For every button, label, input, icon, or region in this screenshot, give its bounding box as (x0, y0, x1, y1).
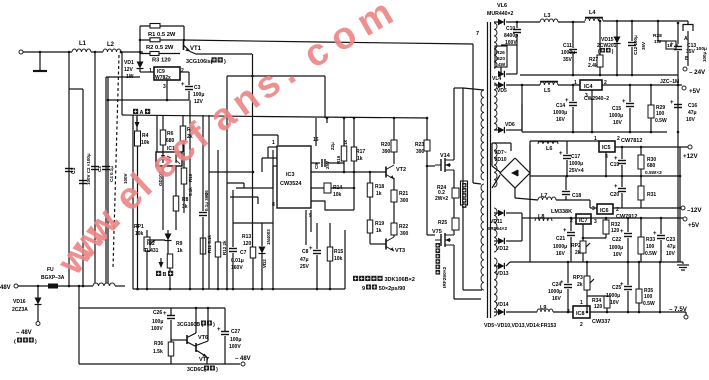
svg-text:R31: R31 (647, 192, 656, 198)
svg-text:2: 2 (617, 136, 620, 142)
svg-text:R18: R18 (375, 184, 384, 190)
svg-text:1: 1 (580, 300, 583, 306)
svg-text:): ) (35, 339, 37, 345)
svg-text:VT2: VT2 (396, 167, 406, 173)
svg-text:R19: R19 (375, 221, 384, 227)
svg-text:3k: 3k (182, 204, 188, 210)
svg-text:R15: R15 (334, 249, 343, 255)
svg-text:1: 1 (149, 68, 152, 74)
svg-text:VD5~VD10,VD13,VD14:FR153: VD5~VD10,VD13,VD14:FR153 (484, 323, 556, 329)
svg-text:1000μ: 1000μ (561, 50, 575, 56)
svg-text:TL431: TL431 (144, 248, 159, 254)
svg-text:): ) (216, 367, 218, 373)
svg-text:VT6: VT6 (198, 335, 208, 341)
svg-text:C25: C25 (612, 285, 621, 291)
svg-text:2k: 2k (577, 282, 583, 288)
svg-text:2CZ3A: 2CZ3A (12, 307, 28, 313)
svg-text:16V: 16V (556, 251, 566, 257)
svg-text:+: + (181, 82, 185, 88)
svg-text:C14: C14 (556, 103, 565, 109)
svg-text:VD13: VD13 (496, 271, 509, 277)
svg-text:VT7: VT7 (199, 357, 209, 363)
svg-text:+5V: +5V (689, 88, 701, 95)
svg-text:48V: 48V (0, 285, 11, 291)
svg-text:0.5W: 0.5W (643, 301, 655, 307)
svg-text:C20: C20 (610, 192, 619, 198)
svg-text:RP2: RP2 (571, 243, 581, 249)
svg-text:+: + (622, 99, 626, 105)
svg-text:R4: R4 (142, 133, 149, 139)
svg-text:8: 8 (272, 202, 275, 208)
svg-text:100μ: 100μ (152, 319, 163, 325)
svg-text:L6: L6 (546, 146, 552, 152)
svg-text:IC7: IC7 (579, 218, 588, 224)
svg-text:100μ: 100μ (696, 46, 707, 52)
svg-text:VD16: VD16 (13, 299, 26, 305)
svg-text:1k: 1k (357, 156, 363, 162)
svg-text:10V: 10V (613, 120, 623, 126)
svg-text:R14: R14 (333, 185, 342, 191)
svg-text:V75: V75 (432, 229, 442, 235)
svg-text:+: + (653, 231, 657, 237)
svg-text:FU: FU (47, 267, 54, 273)
svg-text:10k: 10k (141, 140, 150, 146)
svg-text:0.5W×3: 0.5W×3 (645, 170, 662, 176)
svg-text:120: 120 (243, 241, 252, 247)
svg-text:300: 300 (400, 198, 409, 204)
svg-text:3: 3 (163, 84, 166, 90)
svg-text:12V: 12V (124, 67, 134, 73)
svg-text:C24: C24 (552, 282, 561, 288)
svg-text:1000μ: 1000μ (553, 110, 567, 116)
svg-text:R25: R25 (438, 220, 447, 226)
svg-text:VD6: VD6 (505, 122, 515, 128)
svg-text:IC4: IC4 (584, 84, 594, 90)
svg-text:C23: C23 (666, 237, 675, 243)
svg-text:L1: L1 (79, 41, 87, 47)
svg-text:300: 300 (400, 231, 409, 237)
svg-text:VL6: VL6 (497, 3, 507, 9)
svg-text:10V: 10V (613, 252, 623, 258)
svg-text:): ) (224, 59, 226, 65)
svg-text:+: + (670, 42, 674, 48)
svg-text:SR064×2: SR064×2 (487, 226, 507, 232)
svg-text:IC8: IC8 (576, 311, 585, 317)
svg-text:25V×4: 25V×4 (569, 168, 584, 174)
svg-text:100: 100 (656, 111, 665, 117)
svg-text:R12 2k: R12 2k (222, 240, 227, 255)
svg-text:C16: C16 (688, 103, 697, 109)
svg-text:R8: R8 (182, 197, 189, 203)
svg-text:C27: C27 (231, 329, 240, 335)
svg-text:100: 100 (644, 294, 653, 300)
svg-text:R33: R33 (646, 237, 655, 243)
svg-text:R17: R17 (356, 149, 365, 155)
svg-text:VD7~: VD7~ (494, 150, 507, 156)
svg-text:VD12: VD12 (496, 246, 509, 252)
svg-text:VD1: VD1 (124, 60, 134, 66)
svg-text:IC2: IC2 (147, 241, 155, 247)
svg-text:W782x: W782x (155, 75, 171, 81)
svg-text:+: + (565, 98, 569, 104)
svg-text:0.5W: 0.5W (645, 251, 657, 257)
svg-text:L5: L5 (544, 88, 550, 94)
svg-text:2W×2: 2W×2 (435, 196, 448, 202)
svg-text:+: + (163, 311, 167, 317)
svg-text:100V C2 ×100μ: 100V C2 ×100μ (86, 153, 91, 185)
svg-text:R16: R16 (336, 155, 341, 164)
svg-text:CW3524: CW3524 (280, 181, 302, 187)
svg-text:1k: 1k (376, 191, 382, 197)
svg-text:C12 100μ: C12 100μ (633, 35, 638, 55)
svg-text:– 7.5V: – 7.5V (669, 306, 688, 313)
svg-text:10k: 10k (334, 256, 343, 262)
svg-text:3: 3 (592, 206, 595, 212)
svg-text:C10: C10 (506, 26, 515, 32)
svg-text:VD11: VD11 (490, 219, 502, 225)
svg-text:IC3: IC3 (286, 172, 295, 178)
svg-text:R3 120: R3 120 (152, 58, 171, 64)
svg-text:16V: 16V (552, 296, 562, 302)
svg-text:VT3: VT3 (395, 248, 405, 254)
svg-text:390: 390 (382, 149, 391, 155)
svg-text:L7: L7 (541, 193, 547, 199)
svg-text:C3: C3 (97, 166, 102, 172)
svg-text:R9: R9 (176, 241, 183, 247)
svg-text:10V: 10V (686, 117, 696, 123)
svg-text:RP3: RP3 (573, 275, 583, 281)
svg-text:CW337: CW337 (592, 319, 610, 325)
svg-text:R36: R36 (154, 341, 163, 347)
svg-text:390: 390 (416, 149, 425, 155)
svg-text:(: ( (14, 339, 16, 345)
svg-text:0.01μ: 0.01μ (231, 258, 244, 264)
svg-text:1000μ: 1000μ (609, 245, 623, 251)
svg-text:100: 100 (646, 244, 655, 250)
svg-text:1: 1 (272, 140, 275, 146)
svg-text:RP1: RP1 (134, 224, 144, 230)
svg-text:R20: R20 (381, 142, 390, 148)
svg-text:V14: V14 (440, 153, 451, 159)
svg-text:VT1: VT1 (190, 46, 202, 52)
svg-text:IC6: IC6 (600, 208, 609, 214)
svg-text:C9: C9 (314, 163, 319, 169)
svg-text:16V: 16V (556, 117, 566, 123)
svg-text:R22: R22 (399, 224, 408, 230)
svg-text:MUR440×2: MUR440×2 (487, 11, 513, 17)
svg-text:0.1μ 36V: 0.1μ 36V (204, 193, 209, 211)
svg-text:L3: L3 (544, 13, 550, 19)
svg-text:L2: L2 (107, 42, 115, 48)
svg-text:L4: L4 (589, 10, 596, 16)
svg-text:R28: R28 (653, 33, 662, 39)
svg-text:160V: 160V (231, 265, 243, 271)
svg-text:680: 680 (647, 163, 656, 169)
svg-text:2.4k: 2.4k (588, 63, 598, 69)
svg-text:1: 1 (574, 80, 577, 86)
svg-text:+: + (670, 100, 674, 106)
svg-text:– 48V: – 48V (235, 356, 251, 362)
svg-text:47μ: 47μ (688, 110, 697, 116)
svg-text:1.5k: 1.5k (153, 349, 163, 355)
svg-text:R26: R26 (496, 50, 505, 56)
svg-text:CW7912: CW7912 (616, 214, 637, 220)
svg-text:VL4: VL4 (492, 76, 501, 82)
svg-text:3: 3 (594, 219, 597, 225)
svg-text:R2 0.5 2W: R2 0.5 2W (146, 45, 174, 51)
svg-text:1W: 1W (126, 74, 134, 80)
svg-text:C26: C26 (153, 310, 162, 316)
svg-text:– 48V: – 48V (16, 330, 32, 336)
svg-text:9: 9 (362, 286, 365, 292)
svg-text:C3: C3 (194, 85, 201, 91)
svg-text:1000μ: 1000μ (609, 113, 623, 119)
svg-text:C21: C21 (556, 236, 565, 242)
svg-text:2k: 2k (575, 250, 581, 256)
svg-text:120: 120 (611, 228, 620, 234)
svg-text:2: 2 (580, 322, 583, 328)
svg-text:0.5W: 0.5W (655, 118, 667, 124)
svg-text:B: B (163, 272, 167, 278)
svg-text:1k: 1k (343, 139, 348, 145)
svg-text:100V: 100V (229, 344, 241, 350)
svg-text:C8: C8 (302, 249, 309, 255)
svg-text:1W: 1W (654, 39, 662, 45)
svg-text:IRF250×2: IRF250×2 (442, 266, 448, 288)
svg-text:+: + (620, 229, 624, 235)
svg-text:7: 7 (476, 31, 479, 37)
svg-text:50×2ps/90: 50×2ps/90 (379, 286, 405, 292)
svg-text:R1 0.5 2W: R1 0.5 2W (148, 32, 176, 38)
svg-text:10V: 10V (610, 300, 620, 306)
svg-text:1k: 1k (376, 228, 382, 234)
svg-text:C4 0.1μ: C4 0.1μ (109, 166, 114, 182)
svg-text:CW2940–2: CW2940–2 (584, 96, 609, 102)
svg-text:VD5: VD5 (497, 88, 507, 94)
svg-text:C15: C15 (612, 106, 621, 112)
svg-text:L8: L8 (538, 214, 544, 220)
svg-text:C11: C11 (563, 43, 572, 49)
svg-text:C17: C17 (571, 154, 580, 160)
svg-text:1000μ: 1000μ (569, 161, 583, 167)
svg-text:22μ: 22μ (330, 142, 335, 150)
svg-text:47μ: 47μ (300, 257, 309, 263)
svg-text:IC5: IC5 (602, 145, 611, 151)
svg-text:+: + (559, 151, 563, 157)
svg-text:L9: L9 (540, 305, 546, 311)
svg-text:620: 620 (497, 56, 505, 62)
svg-text:100μ: 100μ (702, 51, 707, 62)
svg-text:+: + (563, 228, 567, 234)
svg-text:25V: 25V (300, 264, 310, 270)
svg-text:C7: C7 (240, 250, 247, 256)
svg-text:3CD6C(: 3CD6C( (187, 367, 206, 373)
svg-text:C19: C19 (610, 162, 619, 168)
svg-text:C22: C22 (612, 237, 621, 243)
svg-text:JZC–1M: JZC–1M (660, 79, 679, 85)
svg-text:10k: 10k (333, 192, 342, 198)
svg-text:2: 2 (181, 68, 184, 74)
svg-text:R23: R23 (415, 142, 424, 148)
svg-text:+5V: +5V (688, 222, 700, 229)
svg-text:LM338K: LM338K (551, 209, 572, 215)
svg-text:35V: 35V (563, 57, 573, 63)
svg-text:35V: 35V (641, 42, 646, 50)
svg-text:R13: R13 (242, 234, 251, 240)
svg-text:+: + (614, 184, 618, 190)
svg-text:3CG160B (: 3CG160B ( (177, 322, 204, 328)
svg-text:8400p: 8400p (504, 33, 518, 39)
svg-text:C1: C1 (71, 167, 77, 174)
svg-text:4W: 4W (498, 62, 506, 68)
svg-text:3CG106is(: 3CG106is( (186, 59, 213, 65)
svg-text:1000μ: 1000μ (553, 244, 567, 250)
svg-text:VD14: VD14 (496, 302, 509, 308)
svg-text:1000μ: 1000μ (548, 289, 562, 295)
svg-text:25V: 25V (325, 161, 330, 169)
svg-text:– 24V: – 24V (689, 69, 706, 76)
svg-text:100V: 100V (151, 326, 163, 332)
svg-text:VD10: VD10 (494, 157, 507, 163)
svg-text:VD2: VD2 (262, 259, 267, 268)
svg-text:+12V: +12V (683, 153, 698, 160)
svg-text:R11 5.1k: R11 5.1k (207, 234, 212, 253)
svg-text:+: + (217, 327, 221, 333)
svg-text:–12V: –12V (687, 207, 702, 214)
svg-text:3DK106B×2: 3DK106B×2 (385, 277, 415, 283)
svg-text:C18: C18 (572, 193, 581, 199)
svg-text:100μ: 100μ (230, 337, 241, 343)
svg-text:100μ: 100μ (193, 92, 204, 98)
svg-text:10k: 10k (135, 231, 144, 237)
svg-text:10V: 10V (666, 251, 676, 257)
svg-text:1000μ: 1000μ (606, 293, 620, 299)
svg-text:+: + (309, 246, 313, 252)
svg-text:BGXP–3A: BGXP–3A (41, 275, 65, 281)
svg-text:1k: 1k (177, 248, 183, 254)
svg-text:120: 120 (594, 304, 603, 310)
svg-text:47μ: 47μ (667, 244, 676, 250)
svg-text:1N4003: 1N4003 (266, 229, 271, 245)
svg-text:R21: R21 (399, 191, 408, 197)
svg-text:12V: 12V (194, 99, 204, 105)
svg-text:CW7812: CW7812 (621, 138, 642, 144)
svg-text:1: 1 (594, 136, 597, 142)
svg-text:): ) (213, 322, 215, 328)
